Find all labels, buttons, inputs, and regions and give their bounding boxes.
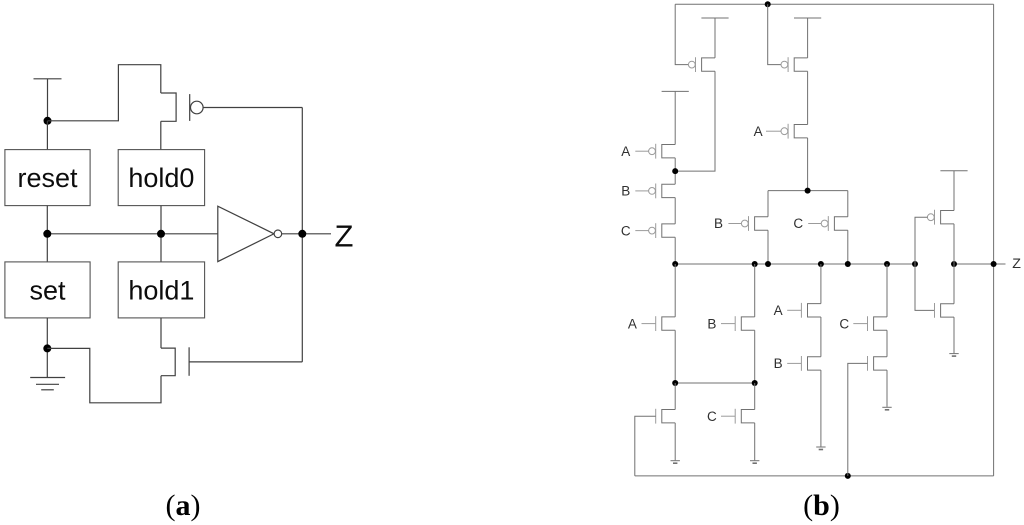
wire hold0 to bus (a) — [160, 206, 162, 262]
ground N4 — [750, 461, 759, 464]
wire Z feedback top rail (b) — [675, 3, 993, 5]
wire hold1 to NMOS drain (a) — [160, 318, 162, 348]
wire set to ground node (a) — [46, 318, 48, 378]
node N1 rail junction (b) — [672, 380, 678, 386]
wire P2 drain to P3 (b) — [807, 71, 809, 124]
pmos M1 channel (a) — [161, 93, 176, 121]
wire N3 gate to bottom rail (b) — [635, 416, 656, 476]
wire N6 source to ground (b) — [820, 370, 822, 447]
wire bus to N2 drain (b) — [754, 264, 756, 317]
ground N3 — [671, 461, 680, 464]
node bus-hold junction (a) — [157, 230, 165, 238]
node Z feedback junction (b) — [991, 261, 997, 267]
nmos M2 channel (a) — [161, 348, 175, 376]
node inverter drain junction (b) — [951, 261, 957, 267]
nmos N7 input C — [853, 316, 887, 331]
nmos N2 input B — [721, 316, 755, 331]
wire N8 gate to bottom rail (b) — [848, 363, 868, 476]
node bus junctions (b) — [672, 261, 678, 267]
wire P1 drain to node (b) — [675, 71, 715, 171]
nmos N6 input B — [787, 356, 821, 371]
pmos M1 gate bar (a) — [189, 94, 191, 121]
svg-text:B: B — [707, 316, 716, 331]
svg-text:hold0: hold0 — [128, 163, 194, 193]
wire P5 drain to bus (b) — [847, 230, 849, 264]
node parallel rail junction (b) — [805, 188, 811, 194]
ground N8 — [882, 407, 891, 410]
VDD supply left stack — [662, 91, 689, 144]
node N2 rail junction (b) — [752, 380, 758, 386]
svg-text:Z: Z — [335, 219, 354, 254]
wire P6 drain to node (b) — [674, 158, 676, 184]
nmos N4 input C — [721, 409, 755, 424]
wire P3 drain to parallel rail (b) — [807, 138, 809, 191]
svg-text:(a): (a) — [166, 489, 201, 522]
svg-text:A: A — [628, 316, 637, 331]
svg-text:reset: reset — [17, 163, 78, 193]
wire nmos gate to feedback (a) — [189, 361, 302, 363]
wire top rail node to P2 gate (b) — [768, 4, 781, 64]
svg-text:C: C — [621, 223, 631, 238]
node bus-reset junction (a) — [43, 230, 51, 238]
node bottom rail junction (b) — [845, 473, 851, 479]
VDD supply P1 — [701, 18, 728, 58]
svg-text:hold1: hold1 — [128, 275, 194, 305]
wire P8 drain to bus (b) — [674, 237, 676, 264]
svg-text:A: A — [621, 144, 630, 159]
feedback wire Z (a) — [301, 108, 303, 362]
wire top rail to P1 gate (b) — [675, 4, 688, 64]
wire N5 to N6 (b) — [820, 317, 822, 357]
bus internal node (b) — [675, 263, 915, 265]
wire pmos gate to feedback (a) — [203, 107, 302, 109]
pmos P4 input B — [728, 216, 768, 231]
bus internal node (a) — [47, 233, 218, 235]
pmos P3 input A — [766, 124, 808, 139]
ground symbol (a) — [30, 378, 65, 390]
wire inverter input (b) — [915, 217, 935, 310]
wire P9 drain to Z (b) — [953, 224, 955, 264]
pmos P1 hold keeper — [688, 57, 715, 72]
wire N2 source to node (b) — [754, 330, 756, 383]
block reset — [5, 150, 90, 206]
wire rail to P5 source (b) — [847, 191, 849, 217]
node top rail junction (b) — [765, 1, 771, 7]
wire N3 source to ground (b) — [674, 423, 676, 460]
wire parallel rail B C (b) — [768, 190, 848, 192]
wire rail to P4 source (b) — [767, 191, 769, 217]
nmos N8 hold keeper — [868, 356, 888, 371]
wire N9 source to ground (b) — [953, 317, 955, 353]
block hold1 — [118, 262, 204, 318]
wire inverter output to Z (a) — [282, 233, 331, 235]
wire reset to bus (a) — [46, 206, 48, 262]
svg-text:B: B — [774, 356, 783, 371]
svg-text:A: A — [754, 124, 763, 139]
VDD supply bar (a) — [34, 79, 62, 121]
pmos M1 drain wire to hold0 (a) — [160, 121, 162, 149]
wire rail to N3 drain (b) — [674, 383, 676, 410]
node VDD junction (a) — [44, 117, 52, 125]
wire N8 source to ground (b) — [886, 370, 888, 407]
wire ground node to NMOS source (a) — [47, 348, 161, 402]
wire P4 drain to bus (b) — [767, 230, 769, 264]
nmos M2 gate bar (a) — [188, 347, 190, 376]
wire N1 source to node (b) — [674, 330, 676, 383]
inverter U1 (a) — [218, 206, 282, 261]
wire output Z segment (b) — [954, 263, 1006, 265]
pmos P9 output inverter — [927, 210, 954, 225]
svg-text:C: C — [707, 409, 717, 424]
svg-text:(b): (b) — [803, 489, 840, 522]
ground N9 — [949, 354, 958, 357]
pmos M1 gate bubble (a) — [191, 101, 204, 114]
nmos N1 input A — [642, 316, 676, 331]
svg-text:C: C — [839, 316, 849, 331]
node Z junction (a) — [298, 230, 306, 238]
svg-text:set: set — [29, 275, 66, 305]
wire N7 to N8 (b) — [886, 330, 888, 356]
svg-text:B: B — [714, 216, 723, 231]
pmos P6 input A — [635, 144, 675, 159]
wire bus to N7 drain (b) — [886, 264, 888, 317]
svg-text:A: A — [774, 303, 783, 318]
block hold0 — [118, 150, 204, 206]
wire Z feedback bottom rail (b) — [635, 475, 994, 477]
svg-text:B: B — [621, 184, 630, 199]
wire bus to N1 drain (b) — [674, 264, 676, 317]
VDD supply P2 — [794, 18, 821, 58]
wire N1 N2 shared rail (b) — [675, 382, 755, 384]
svg-text:Z: Z — [1012, 256, 1021, 272]
wire VDD node to reset (a) — [46, 121, 48, 150]
pmos P8 input C — [635, 223, 675, 238]
pmos P2 hold keeper — [781, 57, 808, 72]
VDD supply inverter — [940, 171, 967, 211]
wire bus to N5 drain (b) — [820, 264, 822, 304]
wire rail to N4 drain (b) — [754, 383, 756, 410]
wire VDD node to PMOS source (a) — [48, 65, 161, 121]
nmos N5 input A — [787, 303, 821, 318]
wire Z to N9 drain (b) — [953, 264, 955, 304]
pmos P5 input C — [808, 216, 848, 231]
nmos N9 output inverter — [935, 303, 955, 318]
wire Z feedback right side (b) — [993, 4, 995, 476]
node P6 P1 junction (b) — [672, 168, 678, 174]
block set — [5, 262, 90, 318]
wire P7 to P8 (b) — [674, 198, 676, 224]
wire N4 source to ground (b) — [754, 423, 756, 460]
nmos N3 hold keeper — [656, 409, 676, 424]
ground N6 — [816, 447, 825, 450]
svg-text:C: C — [793, 216, 803, 231]
pmos P7 input B — [635, 184, 675, 199]
node set-ground junction (a) — [43, 344, 51, 352]
